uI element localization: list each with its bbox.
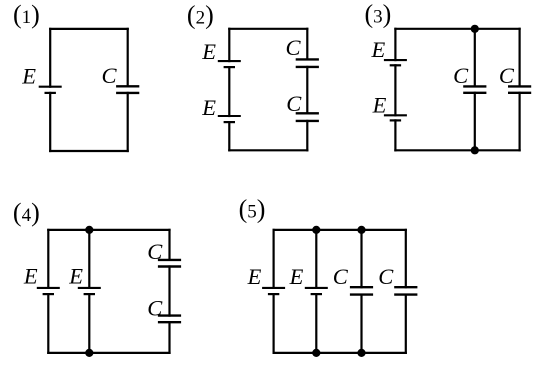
wire: circuit2 left middle (E1 to E2) (228, 67, 230, 116)
svg-text:C: C (453, 63, 469, 88)
wire: circuit3 right upper (to capacitor C2) (518, 29, 520, 87)
wire: circuit4 right upper (to capacitor C1) (168, 230, 170, 260)
wire: circuit5 branch1 upper (to battery E1) (273, 230, 275, 288)
capacitor C2 (circuit2 bottom-right) (296, 113, 319, 121)
svg-text:(4): (4) (13, 198, 40, 227)
battery E2 (circuit4 middle) (78, 288, 101, 294)
node dot: circuit4 top junction (85, 226, 93, 234)
wire: circuit5 bottom (274, 352, 406, 354)
wire: circuit4 top (48, 229, 169, 231)
svg-text:E: E (201, 39, 216, 64)
svg-text:E: E (247, 264, 262, 289)
svg-text:C: C (333, 264, 349, 289)
wire: circuit3 top (395, 28, 519, 30)
capacitor C2 (circuit4 right lower) (158, 316, 181, 323)
svg-text:(1): (1) (13, 0, 40, 29)
wire: circuit2 top (229, 28, 307, 30)
battery E1 (circuit5 branch1) (262, 288, 285, 294)
wire: circuit4 middle branch upper (to battery E2) (88, 230, 90, 288)
wire: circuit5 branch2 lower (315, 294, 317, 353)
wire: circuit5 top (274, 229, 406, 231)
wire: circuit3 middle branch upper (to capacitor C1) (474, 29, 476, 87)
node dot: circuit5 top junction left (312, 226, 320, 234)
svg-text:E: E (21, 63, 36, 88)
svg-text:C: C (286, 35, 302, 60)
wire: circuit4 middle branch lower (88, 294, 90, 353)
svg-text:C: C (147, 239, 163, 264)
capacitor C (circuit1) (116, 86, 139, 93)
wire: circuit5 branch3 upper (to capacitor C1) (360, 230, 362, 287)
battery E2 (circuit5 branch2) (305, 288, 328, 294)
battery E1 (circuit4 left) (37, 288, 60, 294)
wire: circuit2 right middle (C1 to C2) (306, 67, 308, 113)
wire: circuit4 left upper (to battery E1) (47, 230, 49, 288)
battery E1 (circuit3 upper-left) (384, 60, 407, 65)
wire: circuit5 branch4 lower (405, 295, 407, 353)
battery E1 (circuit2 top-left) (218, 61, 241, 67)
wire: circuit1 right lower (127, 93, 129, 151)
wire: circuit2 left upper (to battery E1) (228, 29, 230, 61)
capacitor C1 (circuit4 right upper) (158, 260, 181, 267)
wire: circuit1 right upper (to capacitor C) (127, 29, 129, 86)
node dot: circuit3 top junction (471, 25, 479, 33)
capacitor C1 (circuit2 top-right) (296, 59, 319, 67)
wire: circuit1 left lower (battery E to bottom) (49, 93, 51, 151)
wire: circuit1 bottom (50, 150, 128, 152)
battery E (circuit1) (39, 87, 62, 93)
svg-text:E: E (201, 95, 216, 120)
svg-text:C: C (102, 63, 118, 88)
battery E2 (circuit2 bottom-left) (218, 116, 241, 122)
svg-text:C: C (147, 295, 163, 320)
node dot: circuit5 top junction right (357, 226, 365, 234)
node dot: circuit3 bottom junction (471, 146, 479, 154)
battery E2 (circuit3 lower-left) (384, 115, 407, 120)
svg-text:C: C (378, 264, 394, 289)
wire: circuit3 left upper (to battery E1) (394, 29, 396, 60)
wire: circuit3 left lower (394, 120, 396, 150)
node dot: circuit5 bottom junction left (312, 349, 320, 357)
wire: circuit1 top (50, 28, 128, 30)
svg-text:(2): (2) (187, 1, 214, 30)
wire: circuit5 branch3 lower (360, 295, 362, 353)
wire: circuit3 right lower (518, 93, 520, 151)
wire: circuit2 left lower (228, 122, 230, 150)
wire: circuit2 right upper (to capacitor C1) (306, 29, 308, 60)
node dot: circuit4 bottom junction (85, 349, 93, 357)
svg-text:E: E (23, 263, 38, 288)
svg-text:E: E (68, 263, 83, 288)
svg-text:C: C (286, 91, 302, 116)
svg-text:(3): (3) (365, 0, 392, 28)
wire: circuit4 right middle (C1 to C2) (168, 267, 170, 316)
capacitor C2 (circuit3 right) (508, 86, 531, 92)
wire: circuit1 left upper (to battery E) (49, 29, 51, 87)
wire: circuit3 middle branch lower (474, 93, 476, 151)
wire: circuit5 branch4 upper (to capacitor C2) (405, 230, 407, 287)
wire: circuit3 left middle (E1 to E2) (394, 65, 396, 115)
wire: circuit2 right lower (306, 121, 308, 150)
svg-text:E: E (372, 93, 387, 118)
svg-text:E: E (289, 264, 304, 289)
wire: circuit3 bottom (395, 149, 519, 151)
wire: circuit4 left lower (47, 294, 49, 353)
capacitor C1 (circuit5 branch3) (350, 287, 373, 294)
wire: circuit2 bottom (229, 149, 307, 151)
svg-text:(5): (5) (239, 194, 266, 223)
capacitor C2 (circuit5 branch4) (394, 287, 417, 294)
wire: circuit4 bottom (48, 352, 169, 354)
wire: circuit4 right lower (168, 322, 170, 353)
wire: circuit5 branch1 lower (273, 294, 275, 353)
svg-text:E: E (371, 37, 386, 62)
wire: circuit5 branch2 upper (to battery E2) (315, 230, 317, 288)
svg-text:C: C (499, 63, 515, 88)
node dot: circuit5 bottom junction right (357, 349, 365, 357)
capacitor C1 (circuit3 middle) (463, 86, 486, 92)
